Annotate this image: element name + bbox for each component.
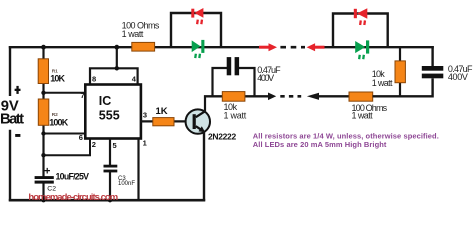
resistor 10k 1watt mid [222,92,245,102]
wire emitter to ground [203,131,205,201]
ground rail bottom [9,199,205,202]
capacitor C3 100nF plates [104,165,118,168]
wire top rail right [323,46,434,48]
label battery plus [15,89,21,91]
svg-text:2: 2 [92,140,96,149]
right LED loop wire [333,14,388,48]
svg-text:1 watt: 1 watt [122,29,144,39]
wire pin1 to ground [137,139,139,201]
svg-text:100nF: 100nF [118,181,135,187]
LED red left loop [191,8,203,24]
resistor 100 Ohms 1 watt bottom right [349,92,373,101]
transistor Q1 2N2222 [186,109,210,133]
wire pin5 [109,139,111,166]
resistor R2 100K [38,99,49,125]
label battery minus [15,134,20,137]
wire pin6 [44,133,86,135]
wire Vcc branch to pins 8 4 [116,47,118,68]
svg-text:7: 7 [81,91,85,100]
arrow black right mid [268,93,276,101]
svg-text:IC: IC [99,94,112,108]
wire C3 to ground [109,172,111,200]
capacitor 0.47uF 400V mid plates [227,57,232,75]
svg-text:400V: 400V [257,73,274,83]
junction node Vcc branch [114,45,119,50]
svg-text:10uF/25V: 10uF/25V [56,172,90,182]
svg-text:8: 8 [92,74,96,83]
battery 9V positive lead [9,46,11,96]
wire pin2 [44,139,91,155]
resistor 10k 1 watt right [395,61,405,83]
battery 9V negative lead [9,130,11,201]
wire R2 branch [42,93,44,177]
dashes mid [280,95,301,98]
arrow red right top [259,46,270,49]
wire top rail left [9,46,260,48]
svg-text:1K: 1K [156,106,168,117]
wire R1 branch [42,47,44,93]
wire mid RC cap branch [213,68,228,96]
wire mid RC bottom branch [204,95,269,97]
resistor 1K base [153,118,174,126]
wire pin7 [44,92,85,94]
svg-text:4: 4 [132,74,137,83]
svg-text:3: 3 [143,110,147,119]
wire collector [204,97,206,112]
arrow red left top [307,43,316,51]
capacitor C2 10uF/25V plates [35,176,54,179]
resistor R1 10K [38,59,48,84]
svg-text:10K: 10K [50,73,65,83]
LED green right loop [355,40,369,59]
svg-text:+: + [44,166,50,178]
arrow black left mid [307,93,319,100]
wire right cap top lead [431,46,433,66]
junction node C2 ground [41,198,45,202]
LED red right loop [354,8,368,25]
wire bracket pins 8 and 4 [90,68,138,84]
wire 10k right leads [399,47,401,61]
resistor 100 Ohms 1 watt top left [132,42,155,51]
svg-text:1 watt: 1 watt [224,110,247,120]
svg-text:5: 5 [113,141,117,150]
svg-text:400V: 400V [448,72,468,82]
svg-text:100K: 100K [49,117,68,127]
LED green left loop [192,40,205,58]
svg-text:1 watt: 1 watt [372,78,393,88]
left LED loop wire [171,13,221,47]
IC U1 555 box [85,85,141,139]
svg-text:2N2222: 2N2222 [208,131,236,141]
wire pin3 [140,120,192,122]
capacitor 0.47uF 400V right plates [422,66,444,71]
junction node pin2 [41,153,45,157]
svg-text:1 watt: 1 watt [352,111,374,121]
wire C2 to ground [42,183,44,200]
svg-text:Batt: Batt [0,111,24,127]
junction node pin6 [41,131,45,135]
svg-text:6: 6 [79,133,83,142]
junction node R1 R2 pin7 [41,91,45,95]
wire bottom right [373,78,433,96]
svg-text:All LEDs are 20 mA 5mm High Br: All LEDs are 20 mA 5mm High Bright [253,140,387,149]
svg-text:555: 555 [99,109,120,123]
dashes top [280,46,305,49]
svg-text:homemade-circuits.com: homemade-circuits.com [28,192,118,203]
junction node C3 ground [108,198,112,202]
svg-text:1: 1 [143,138,147,147]
junction node R1 top [41,45,46,50]
